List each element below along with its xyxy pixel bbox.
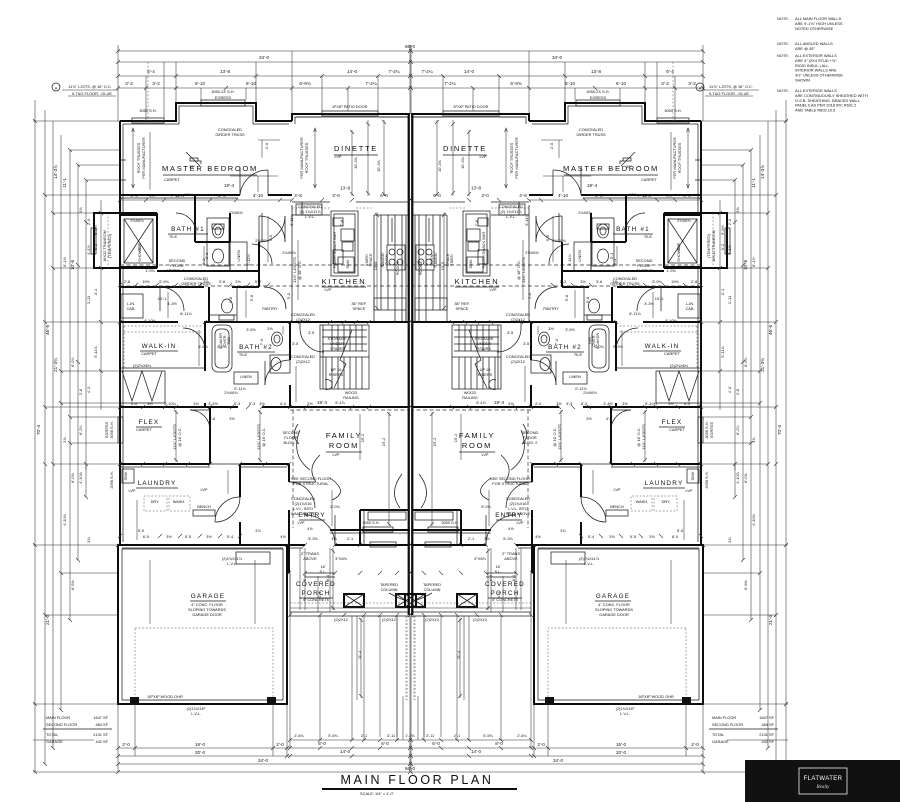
svg-text:SINK: SINK	[690, 471, 695, 480]
svg-text:10'-6: 10'-6	[743, 260, 748, 271]
svg-text:4'-3½: 4'-3½	[644, 301, 654, 306]
svg-text:SINK: SINK	[345, 259, 350, 268]
svg-text:4'-3: 4'-3	[727, 387, 732, 393]
svg-text:FLUSH SNACK BAR: FLUSH SNACK BAR	[332, 232, 337, 269]
svg-text:4'-10: 4'-10	[253, 193, 264, 198]
svg-text:PANTRY: PANTRY	[262, 306, 278, 311]
svg-text:A: A	[55, 86, 58, 91]
svg-text:3050-2X S.H.: 3050-2X S.H.	[211, 89, 234, 94]
svg-text:TUB: TUB	[587, 337, 592, 345]
svg-text:LINEN: LINEN	[240, 374, 252, 379]
svg-text:3½: 3½	[193, 401, 199, 406]
left unit geometry	[33, 45, 416, 774]
svg-text:EGRESS: EGRESS	[104, 421, 109, 438]
svg-text:COLUMN: COLUMN	[381, 587, 398, 592]
svg-text:(2)2X12: (2)2X12	[511, 359, 525, 364]
svg-text:5'-0⅛: 5'-0⅛	[481, 504, 491, 509]
svg-text:10'-6⅛: 10'-6⅛	[166, 268, 179, 273]
svg-text:3°X6⅛: 3°X6⅛	[335, 556, 347, 561]
svg-text:CARPET: CARPET	[141, 351, 157, 356]
svg-text:46'-6: 46'-6	[45, 325, 50, 336]
svg-text:PORCH: PORCH	[301, 590, 330, 597]
svg-text:BATH #2: BATH #2	[239, 344, 273, 351]
right unit geometry (mirrored)	[405, 45, 788, 774]
svg-text:OVEN: OVEN	[429, 254, 434, 265]
svg-text:5'-4: 5'-4	[588, 534, 595, 539]
svg-text:6'-4: 6'-4	[147, 69, 155, 74]
svg-text:SPACE: SPACE	[445, 253, 450, 266]
svg-text:5'-10¾: 5'-10¾	[645, 401, 658, 406]
svg-text:7'-2¼: 7'-2¼	[421, 69, 433, 74]
svg-text:GIRDER TRUSS: GIRDER TRUSS	[215, 132, 245, 137]
svg-text:19½: 19½	[671, 279, 679, 284]
svg-text:LVP: LVP	[481, 452, 488, 457]
svg-text:LAUNDRY: LAUNDRY	[138, 480, 177, 487]
title MAIN FLOOR PLAN	[322, 773, 517, 796]
svg-text:46'-6: 46'-6	[768, 325, 773, 336]
svg-text:2'-0: 2'-0	[691, 742, 699, 747]
svg-text:MAIN FLOOR: MAIN FLOOR	[46, 715, 70, 720]
svg-text:5'-0: 5'-0	[286, 292, 291, 299]
svg-text:L.V.L.: L.V.L.	[620, 711, 630, 716]
svg-text:4'-1½: 4'-1½	[727, 244, 732, 254]
svg-text:3⅞: 3⅞	[86, 537, 91, 543]
svg-text:L.V.L.: L.V.L.	[305, 214, 315, 219]
svg-text:432 SF: 432 SF	[761, 739, 774, 744]
svg-text:6⁰X6⁰ PATIO DOOR: 6⁰X6⁰ PATIO DOOR	[333, 104, 368, 109]
svg-text:3050 S.H.: 3050 S.H.	[441, 520, 458, 525]
svg-text:5'-11⅛: 5'-11⅛	[289, 214, 294, 226]
svg-text:BATH #1: BATH #1	[171, 226, 205, 233]
svg-text:19'-4: 19'-4	[494, 400, 505, 405]
svg-text:6'-10: 6'-10	[616, 81, 627, 86]
svg-text:5'-0: 5'-0	[138, 528, 145, 533]
svg-text:6'-11⅛: 6'-11⅛	[629, 311, 641, 316]
svg-text:RAILING: RAILING	[343, 395, 359, 400]
svg-text:(TEMPERED): (TEMPERED)	[706, 233, 711, 258]
center bottom dims	[405, 733, 415, 738]
svg-text:BENCH: BENCH	[610, 504, 624, 509]
svg-text:5'-0: 5'-0	[527, 292, 532, 299]
svg-text:30°: 30°	[189, 164, 195, 169]
svg-text:5'-8: 5'-8	[249, 295, 254, 301]
svg-text:6'-4: 6'-4	[488, 574, 493, 581]
svg-text:3'-6: 3'-6	[596, 279, 602, 284]
svg-text:3050 S.H.: 3050 S.H.	[139, 108, 156, 113]
svg-text:2'-8: 2'-8	[218, 193, 226, 198]
svg-text:(TEMPERED): (TEMPERED)	[107, 233, 112, 258]
svg-text:5'-2: 5'-2	[560, 279, 566, 284]
svg-text:7'-6: 7'-6	[339, 220, 344, 226]
svg-text:PER MANUFACTURER: PER MANUFACTURER	[299, 137, 304, 179]
svg-text:6'-0⅞: 6'-0⅞	[70, 472, 75, 482]
svg-text:10'-1: 10'-1	[655, 296, 664, 301]
svg-text:34'-0: 34'-0	[259, 55, 270, 60]
svg-text:2⅛X6⅛: 2⅛X6⅛	[255, 238, 269, 243]
svg-text:DRY.: DRY.	[662, 499, 671, 504]
svg-text:6⁰X6⁰ PATIO DOOR: 6⁰X6⁰ PATIO DOOR	[454, 104, 489, 109]
svg-text:70'-4: 70'-4	[777, 425, 782, 436]
svg-text:ROOM: ROOM	[462, 441, 492, 450]
svg-text:7'-2¼: 7'-2¼	[444, 81, 456, 86]
svg-text:13'-8: 13'-8	[471, 186, 482, 191]
svg-text:16X12 TRANSOM: 16X12 TRANSOM	[711, 230, 716, 262]
svg-text:5'-9¾: 5'-9¾	[159, 279, 169, 284]
svg-text:ARE @ 45°: ARE @ 45°	[795, 46, 815, 51]
svg-text:3½: 3½	[267, 326, 273, 331]
svg-text:8'-0: 8'-0	[495, 741, 503, 746]
svg-text:RODGE: RODGE	[418, 260, 423, 275]
svg-text:11'-4: 11'-4	[357, 650, 362, 659]
svg-text:NOTE:: NOTE:	[777, 16, 789, 21]
svg-text:6'-0¾: 6'-0¾	[743, 356, 748, 366]
svg-text:7'-11⅛: 7'-11⅛	[637, 193, 651, 198]
svg-text:6'-0: 6'-0	[432, 741, 440, 746]
svg-text:14'-3⅞: 14'-3⅞	[53, 165, 58, 179]
svg-text:5'-2: 5'-2	[255, 279, 261, 284]
svg-text:3½: 3½	[166, 534, 172, 539]
svg-text:A: A	[699, 86, 702, 91]
svg-text:FOR STRUCTURAL: FOR STRUCTURAL	[492, 481, 528, 486]
general notes	[777, 16, 868, 113]
svg-text:LINEN: LINEN	[569, 374, 581, 379]
svg-text:DINETTE: DINETTE	[334, 144, 378, 153]
svg-text:FAMILY: FAMILY	[326, 431, 362, 440]
svg-text:FLEX: FLEX	[139, 419, 160, 426]
svg-text:3½: 3½	[666, 193, 672, 198]
svg-text:3050 S.H.: 3050 S.H.	[362, 520, 379, 525]
svg-text:21'-3¾: 21'-3¾	[53, 358, 58, 372]
svg-text:(2)2X12: (2)2X12	[334, 617, 348, 622]
svg-text:LINEN: LINEN	[236, 250, 241, 262]
svg-text:2'-0: 2'-0	[537, 742, 545, 747]
svg-text:CARPET: CARPET	[136, 427, 152, 432]
svg-text:PER MANUFACTURER: PER MANUFACTURER	[514, 137, 519, 179]
svg-text:2056 S.H.: 2056 S.H.	[704, 471, 709, 488]
svg-text:8'-0: 8'-0	[318, 741, 326, 746]
svg-text:TILE: TILE	[239, 352, 248, 357]
svg-text:SHOWER: SHOWER	[137, 244, 142, 262]
svg-text:3½: 3½	[609, 534, 615, 539]
svg-text:2⅛X6⅛: 2⅛X6⅛	[578, 210, 592, 215]
svg-text:3½: 3½	[649, 534, 655, 539]
A marker right	[696, 83, 704, 91]
svg-text:7'-0: 7'-0	[554, 338, 559, 345]
svg-text:5'-11⅞: 5'-11⅞	[720, 346, 725, 358]
svg-text:3°X6⅛: 3°X6⅛	[474, 556, 486, 561]
svg-text:LVP: LVP	[685, 488, 692, 493]
svg-text:66'-0: 66'-0	[405, 766, 416, 771]
svg-text:2'-8: 2'-8	[124, 279, 130, 284]
svg-text:4'-10⅛: 4'-10⅛	[665, 318, 678, 323]
svg-text:(2)2X12: (2)2X12	[382, 617, 396, 622]
svg-text:4½: 4½	[508, 526, 514, 531]
svg-text:3½: 3½	[203, 279, 209, 284]
svg-text:5'-2: 5'-2	[720, 244, 725, 250]
svg-text:WALL ABOVE: WALL ABOVE	[291, 511, 316, 516]
svg-text:RODGE: RODGE	[395, 260, 400, 275]
svg-text:3'-5: 3'-5	[308, 330, 314, 335]
svg-text:2'-1: 2'-1	[347, 536, 353, 541]
svg-text:19⅛: 19⅛	[629, 192, 637, 197]
svg-text:MASTER BEDROOM: MASTER BEDROOM	[162, 164, 258, 173]
svg-text:3⅞: 3⅞	[255, 528, 261, 533]
svg-text:13'-8: 13'-8	[340, 186, 351, 191]
svg-text:1'-9⅛: 1'-9⅛	[666, 268, 676, 273]
svg-text:PER MANUFACTURER: PER MANUFACTURER	[672, 137, 677, 179]
svg-text:WASH.: WASH.	[636, 499, 649, 504]
area table left	[43, 715, 112, 744]
svg-text:5'-11⅛: 5'-11⅛	[524, 214, 529, 226]
svg-text:10'-3⅞: 10'-3⅞	[353, 156, 358, 169]
svg-text:NOTE:: NOTE:	[777, 53, 789, 58]
svg-text:WALL ABOVE: WALL ABOVE	[506, 511, 531, 516]
svg-text:4'-6: 4'-6	[209, 416, 215, 421]
svg-text:6'-10: 6'-10	[246, 81, 257, 86]
svg-text:0'-11⅛: 0'-11⅛	[575, 386, 587, 391]
svg-text:3⅞: 3⅞	[62, 437, 67, 443]
svg-text:432 SF: 432 SF	[95, 739, 108, 744]
svg-text:19'-4: 19'-4	[317, 400, 328, 405]
svg-text:ROOF TRUSSES: ROOF TRUSSES	[304, 142, 309, 173]
svg-text:KITCHEN: KITCHEN	[322, 277, 367, 286]
svg-text:5'-4⅞: 5'-4⅞	[476, 400, 486, 405]
svg-text:11⅞" I-JOISTS: 11⅞" I-JOISTS	[521, 257, 526, 283]
svg-text:2⅛X6⅛: 2⅛X6⅛	[552, 238, 566, 243]
svg-text:3⅛: 3⅛	[331, 536, 337, 541]
svg-text:LVP: LVP	[128, 488, 135, 493]
svg-text:LVP: LVP	[297, 520, 304, 525]
svg-text:DINETTE: DINETTE	[443, 144, 487, 153]
svg-text:EGRESS: EGRESS	[215, 95, 232, 100]
svg-text:MAIN FLOOR: MAIN FLOOR	[712, 715, 736, 720]
svg-text:RISERS: RISERS	[329, 372, 344, 377]
svg-text:6'-4: 6'-4	[511, 574, 516, 581]
svg-text:3'-5: 3'-5	[507, 330, 513, 335]
svg-text:3056 S.H.: 3056 S.H.	[109, 421, 114, 438]
svg-text:5'-0⅛: 5'-0⅛	[594, 344, 604, 349]
svg-text:5'-9½: 5'-9½	[93, 224, 98, 234]
svg-text:5'-2: 5'-2	[93, 244, 98, 250]
svg-text:8'-1½: 8'-1½	[751, 256, 756, 266]
svg-text:WALK-IN: WALK-IN	[645, 343, 680, 350]
svg-text:GARAGE: GARAGE	[191, 593, 226, 600]
svg-text:4'-3½: 4'-3½	[167, 301, 177, 306]
svg-text:7'-11⅛: 7'-11⅛	[170, 193, 184, 198]
svg-text:FAMILY: FAMILY	[459, 431, 495, 440]
svg-text:10'-3⅞: 10'-3⅞	[460, 156, 465, 169]
svg-text:4'-0: 4'-0	[280, 401, 287, 406]
svg-text:3½: 3½	[235, 279, 241, 284]
svg-text:484 SF: 484 SF	[95, 722, 108, 727]
svg-text:6'-0: 6'-0	[380, 193, 388, 198]
svg-text:TOTAL: TOTAL	[46, 732, 59, 737]
svg-text:5'-8: 5'-8	[228, 297, 233, 303]
svg-text:6'-0: 6'-0	[672, 534, 679, 539]
svg-text:2'-8: 2'-8	[78, 389, 83, 395]
svg-text:Realty: Realty	[816, 785, 831, 790]
svg-text:5'-4: 5'-4	[227, 534, 234, 539]
svg-text:6'-0¾: 6'-0¾	[70, 356, 75, 366]
svg-text:LVP: LVP	[516, 520, 523, 525]
svg-text:5'-4⅞: 5'-4⅞	[335, 400, 345, 405]
svg-text:2'-0: 2'-0	[549, 142, 554, 149]
svg-text:3'-2: 3'-2	[688, 81, 696, 86]
svg-text:DRY.: DRY.	[151, 499, 160, 504]
svg-text:3050 S.H.: 3050 S.H.	[664, 108, 681, 113]
svg-text:3'-0: 3'-0	[481, 193, 489, 198]
svg-text:SPACE: SPACE	[368, 253, 373, 266]
svg-text:20'-0: 20'-0	[195, 750, 206, 755]
svg-text:5'-11⅛: 5'-11⅛	[246, 254, 251, 266]
svg-text:SINK: SINK	[468, 259, 473, 268]
svg-text:BLDG. 2: BLDG. 2	[523, 440, 538, 445]
svg-text:3'-11: 3'-11	[387, 733, 395, 738]
svg-text:6'-2¼: 6'-2¼	[78, 424, 83, 434]
svg-text:@ 16' O.C.: @ 16' O.C.	[177, 427, 182, 446]
svg-text:6'-9⅞: 6'-9⅞	[743, 579, 748, 589]
svg-text:3½: 3½	[206, 534, 212, 539]
svg-text:CARPET: CARPET	[664, 351, 680, 356]
svg-text:COLUMN: COLUMN	[424, 587, 441, 592]
svg-text:21'-0: 21'-0	[45, 615, 50, 626]
svg-text:2'-0: 2'-0	[727, 218, 732, 225]
svg-text:10'-1: 10'-1	[158, 296, 167, 301]
svg-text:NOTED OTHERWISE: NOTED OTHERWISE	[795, 26, 834, 31]
svg-text:GARAGE: GARAGE	[46, 739, 63, 744]
svg-text:3'-5: 3'-5	[292, 341, 298, 346]
svg-text:CARPET: CARPET	[641, 177, 657, 182]
svg-text:5'-8: 5'-8	[585, 297, 590, 303]
svg-text:6'-0: 6'-0	[143, 534, 150, 539]
svg-text:S.L.: S.L.	[495, 569, 502, 574]
svg-text:@ 16" O.C.: @ 16" O.C.	[516, 260, 521, 280]
svg-text:(2)2⅛X6⅛: (2)2⅛X6⅛	[670, 363, 689, 368]
svg-text:2'-0: 2'-0	[276, 742, 284, 747]
svg-text:6'-4: 6'-4	[325, 574, 330, 581]
svg-text:6'-0⅞: 6'-0⅞	[743, 472, 748, 482]
svg-text:3'-3: 3'-3	[249, 401, 255, 406]
svg-text:5'-5¾: 5'-5¾	[483, 733, 493, 738]
svg-text:FLUSH SNACK BAR: FLUSH SNACK BAR	[481, 232, 486, 269]
svg-text:BLDG. 2: BLDG. 2	[284, 440, 299, 445]
svg-text:2056 S.H.: 2056 S.H.	[109, 471, 114, 488]
svg-text:TOTAL: TOTAL	[712, 732, 725, 737]
svg-text:4'-8: 4'-8	[294, 193, 302, 198]
svg-text:9-T&G FLOOR. -GLUE: 9-T&G FLOOR. -GLUE	[709, 91, 749, 96]
svg-text:3'-6: 3'-6	[219, 279, 225, 284]
svg-text:(2)2X12: (2)2X12	[425, 617, 439, 622]
svg-text:10'-6⅛: 10'-6⅛	[643, 268, 656, 273]
svg-text:(2)2⅛X6⅛: (2)2⅛X6⅛	[133, 363, 152, 368]
svg-text:3'-5: 3'-5	[523, 341, 529, 346]
svg-text:3'-1: 3'-1	[93, 289, 98, 295]
svg-text:NOTE:: NOTE:	[777, 41, 789, 46]
svg-text:MAIN FLOOR PLAN: MAIN FLOOR PLAN	[341, 773, 494, 787]
svg-text:5'-5: 5'-5	[185, 534, 191, 539]
svg-text:KITCHEN: KITCHEN	[455, 277, 500, 286]
svg-text:CARPET: CARPET	[669, 427, 685, 432]
svg-text:14'-0: 14'-0	[347, 69, 358, 74]
svg-text:SPACE: SPACE	[353, 306, 366, 311]
svg-text:6'-0: 6'-0	[381, 741, 389, 746]
svg-text:4'-1: 4'-1	[317, 592, 322, 598]
svg-text:OVEN: OVEN	[384, 254, 389, 265]
svg-text:EGRESS: EGRESS	[709, 421, 714, 438]
svg-text:RISERS: RISERS	[478, 372, 493, 377]
svg-text:6'-4: 6'-4	[302, 574, 307, 581]
svg-text:7'-2¼: 7'-2¼	[388, 69, 400, 74]
svg-text:21'-3¾: 21'-3¾	[760, 358, 765, 372]
svg-text:14'-0: 14'-0	[464, 69, 475, 74]
svg-text:2131 SF: 2131 SF	[759, 732, 774, 737]
svg-text:L.V.L.: L.V.L.	[227, 561, 237, 566]
svg-text:SECOND FLOOR: SECOND FLOOR	[46, 722, 77, 727]
svg-text:PER MANUFACTURER: PER MANUFACTURER	[141, 137, 146, 179]
svg-text:70'-4: 70'-4	[36, 425, 41, 436]
svg-text:TILE: TILE	[169, 234, 178, 239]
svg-text:LVP: LVP	[489, 287, 496, 292]
svg-text:4'-10⅞: 4'-10⅞	[735, 471, 740, 484]
svg-text:WALK-IN: WALK-IN	[142, 343, 177, 350]
svg-text:34'-0: 34'-0	[258, 758, 269, 763]
svg-text:5'-11⅞: 5'-11⅞	[93, 346, 98, 358]
svg-text:15'-2: 15'-2	[381, 438, 386, 447]
svg-text:14'-3⅞: 14'-3⅞	[760, 165, 765, 179]
svg-text:2'-1: 2'-1	[361, 733, 367, 738]
svg-text:4½: 4½	[307, 526, 313, 531]
svg-text:@ 16" O.C.: @ 16" O.C.	[297, 260, 302, 280]
svg-text:3'-2: 3'-2	[125, 81, 133, 86]
svg-text:7'-2¼: 7'-2¼	[365, 81, 377, 86]
svg-text:SPACE: SPACE	[456, 306, 469, 311]
svg-text:5'-5: 5'-5	[630, 534, 636, 539]
svg-text:4'-0: 4'-0	[131, 401, 138, 406]
svg-text:ROOF TRUSSES: ROOF TRUSSES	[677, 142, 682, 173]
svg-text:4'-10⅞: 4'-10⅞	[62, 513, 67, 526]
svg-text:3'-5½: 3'-5½	[246, 327, 256, 332]
svg-text:5'-3: 5'-3	[581, 401, 587, 406]
svg-text:2'-0: 2'-0	[122, 742, 130, 747]
svg-text:21'-0: 21'-0	[768, 615, 773, 626]
svg-text:3'-1: 3'-1	[720, 289, 725, 295]
svg-text:5'-8: 5'-8	[564, 295, 569, 301]
svg-text:3⅞: 3⅞	[727, 537, 732, 543]
svg-text:6'-0: 6'-0	[433, 193, 441, 198]
svg-text:6'-4: 6'-4	[666, 69, 674, 74]
svg-text:CAB.: CAB.	[685, 306, 694, 311]
svg-text:MASTER BEDROOM: MASTER BEDROOM	[563, 164, 659, 173]
svg-text:LVP: LVP	[332, 452, 339, 457]
svg-text:14'-0: 14'-0	[471, 749, 482, 754]
svg-text:16'-0: 16'-0	[195, 742, 206, 747]
svg-text:3½: 3½	[548, 326, 554, 331]
svg-text:5'-3⅛: 5'-3⅛	[308, 536, 318, 541]
svg-text:484 SF: 484 SF	[761, 722, 774, 727]
svg-text:5'-11⅛: 5'-11⅛	[567, 254, 572, 266]
svg-text:@ 16' O.C.: @ 16' O.C.	[636, 427, 641, 446]
dim 66-0 bottom	[405, 766, 416, 771]
svg-text:L.V.L.: L.V.L.	[506, 214, 516, 219]
svg-text:4'-3: 4'-3	[86, 387, 91, 393]
svg-text:3'-1: 3'-1	[204, 253, 209, 259]
svg-text:19'-4: 19'-4	[224, 183, 235, 188]
svg-text:ABOVE: ABOVE	[303, 556, 317, 561]
svg-text:7'-0: 7'-0	[259, 338, 264, 345]
svg-text:15'-2: 15'-2	[360, 434, 365, 443]
svg-text:19⅛: 19⅛	[184, 192, 192, 197]
svg-text:20'-0: 20'-0	[616, 750, 627, 755]
